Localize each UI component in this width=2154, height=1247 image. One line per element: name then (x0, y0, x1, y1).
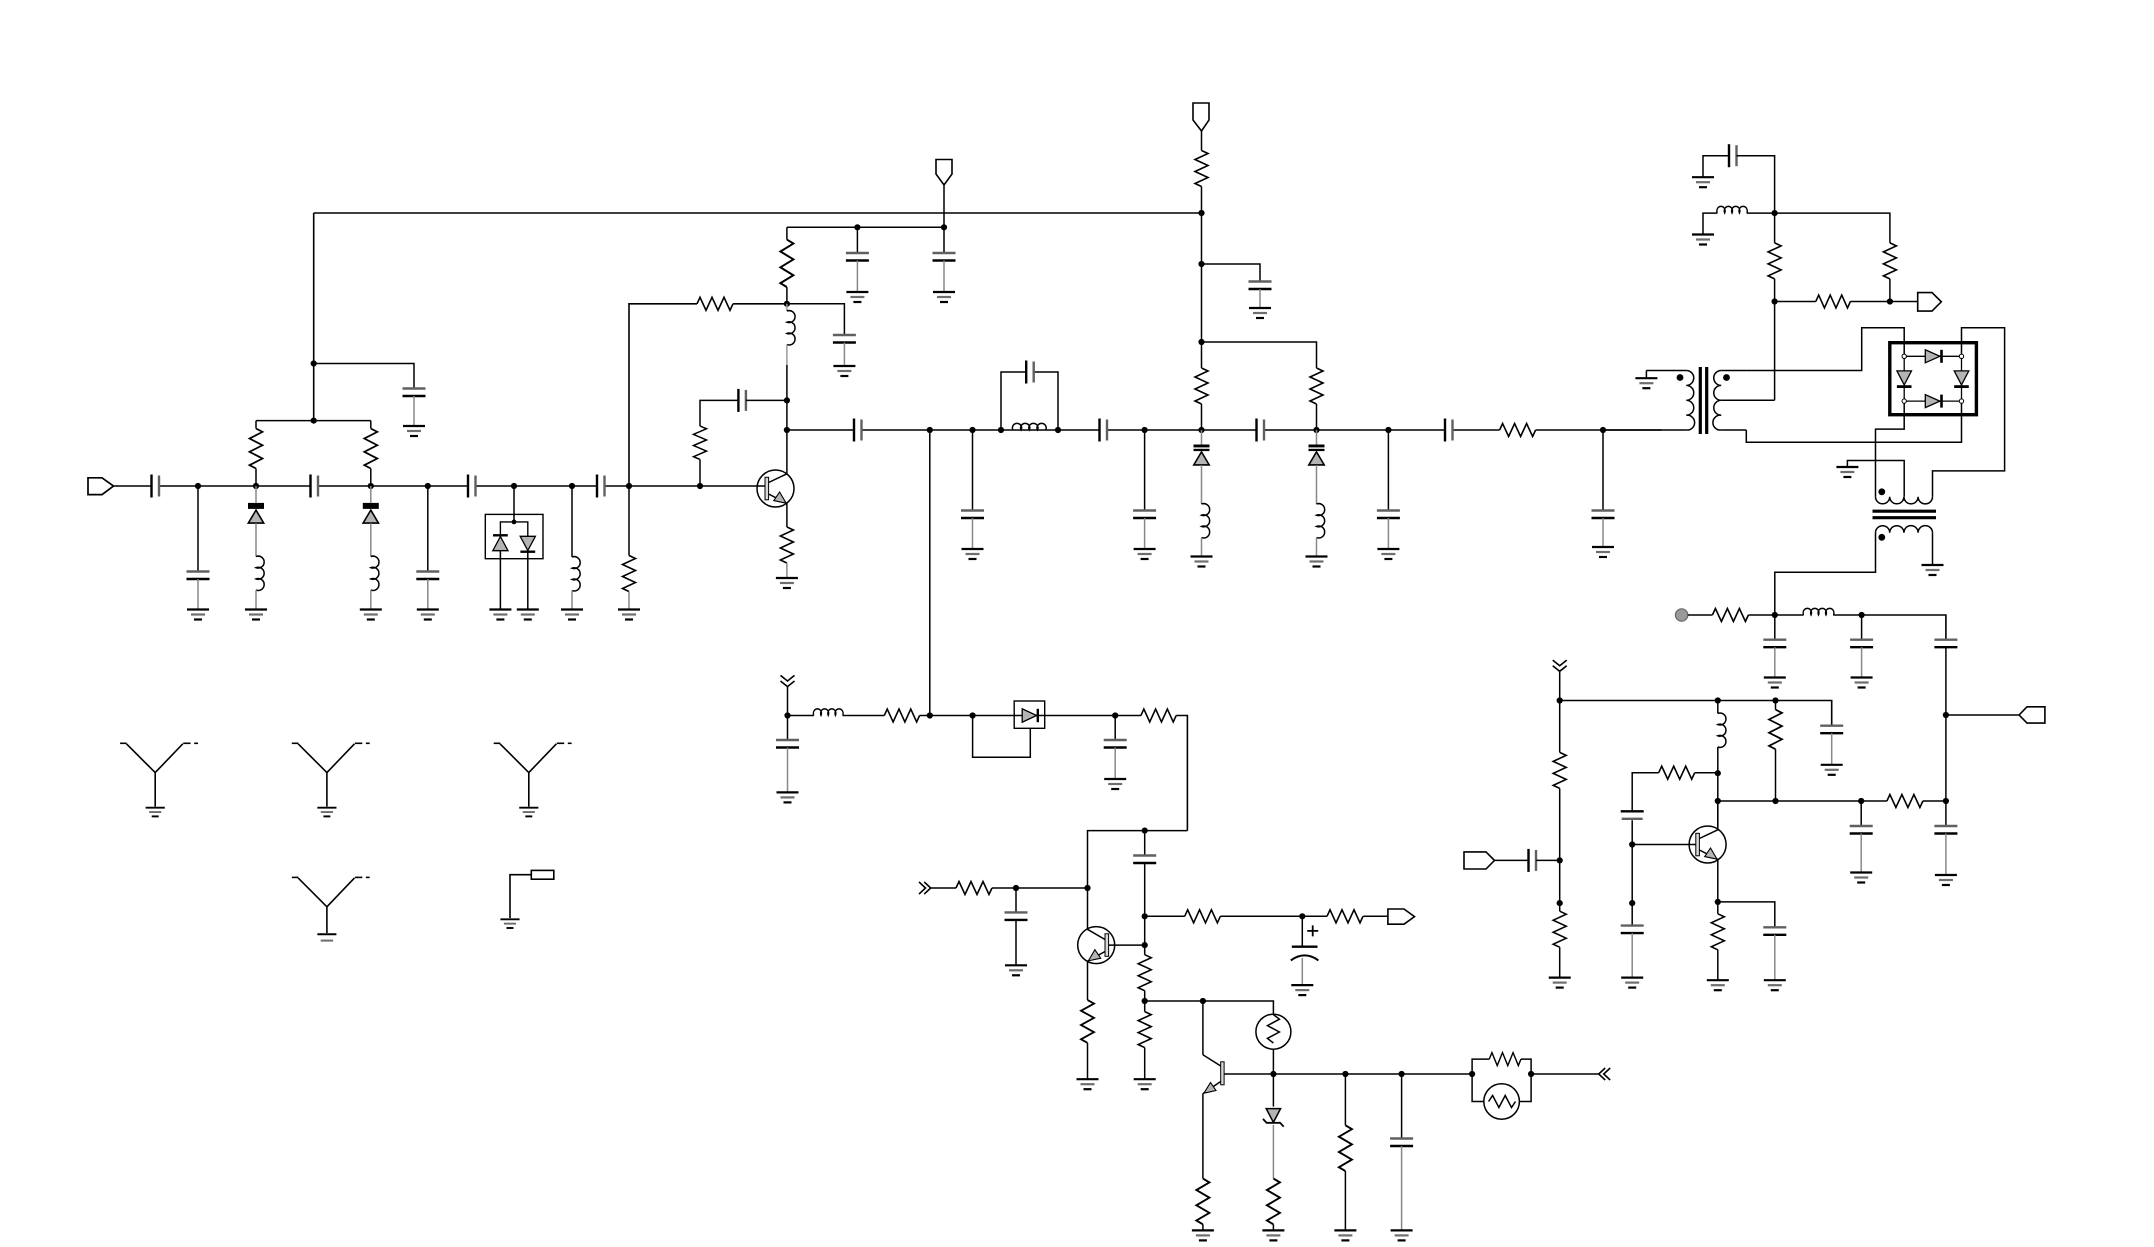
wire: IF line (1688, 615, 1946, 640)
wire (1945, 647, 1947, 801)
inductor L8 (813, 709, 843, 716)
wire (699, 460, 701, 487)
ground (1192, 1230, 1214, 1240)
capacitor C29 (1763, 640, 1786, 648)
capacitor C24 (1133, 856, 1156, 864)
node D10n (1385, 427, 1391, 433)
diode D12 (bridge bottom) (1925, 395, 1941, 408)
node M1n (1557, 697, 1563, 703)
plus sign (1307, 925, 1318, 936)
wire: Q3 output line (1718, 800, 1946, 802)
wire (1775, 701, 1777, 710)
wire (1144, 518, 1146, 549)
ground (519, 808, 538, 817)
wire (1774, 935, 1776, 980)
wire (786, 345, 788, 365)
wire (1272, 1049, 1274, 1074)
resistor R31 (1887, 795, 1923, 808)
ground (1592, 547, 1614, 557)
node M2n (1557, 857, 1563, 863)
wire (972, 430, 974, 511)
node K3 (1887, 298, 1893, 304)
node M10n (1629, 841, 1635, 847)
inductor L9 (1717, 206, 1747, 213)
ground (1692, 235, 1714, 245)
capacitor C15 (1100, 419, 1108, 442)
capacitor C14 (1026, 361, 1034, 384)
node B4 (941, 224, 947, 230)
wire (1301, 958, 1303, 985)
node M8n (1772, 798, 1778, 804)
wire (943, 185, 945, 227)
node F2 (927, 712, 933, 718)
node H2 (1270, 1071, 1276, 1077)
capacitor C6 (597, 475, 605, 498)
wire (1945, 801, 1947, 826)
wire: input line segments (113, 485, 765, 487)
node M7n (1772, 697, 1778, 703)
wire (787, 748, 789, 793)
wire (1316, 430, 1318, 504)
node A8 (626, 483, 632, 489)
ground (517, 610, 539, 620)
node L3n (1943, 712, 1949, 718)
wire: Q2 collector line (1088, 831, 1188, 930)
node D11n (1600, 427, 1606, 433)
capacitor C13 (961, 511, 984, 519)
ground (317, 934, 336, 940)
wire (787, 287, 845, 335)
connector J6 (2019, 707, 2045, 723)
wire: bridge TR to T2 (1933, 328, 2005, 497)
diode D3 (493, 535, 508, 550)
wire (1301, 916, 1303, 946)
wire (1495, 859, 1529, 861)
wire (1015, 888, 1017, 912)
ground (1635, 378, 1657, 388)
ground (1291, 985, 1313, 995)
resistor R26 (1816, 295, 1851, 308)
chevron marker M3 (919, 882, 931, 894)
wire (1861, 615, 1863, 640)
wire (1747, 213, 1890, 243)
resistor R28 (1553, 752, 1566, 788)
node B7 (697, 483, 703, 489)
ground (561, 610, 583, 620)
ground (618, 610, 640, 620)
wire (786, 430, 788, 474)
node M12n (1715, 899, 1721, 905)
wire (1202, 1001, 1204, 1055)
node B6 (784, 397, 790, 403)
bridge terminal (1959, 354, 1963, 358)
diode pair box U1 (485, 514, 543, 558)
resistor R6 (694, 426, 707, 459)
resistor R11 (1195, 151, 1208, 187)
wire (427, 486, 429, 572)
varactor D1 (248, 503, 264, 523)
resistor R13 (1141, 709, 1176, 722)
bridge terminal (1902, 399, 1906, 403)
node H3 (1342, 1071, 1348, 1077)
wire: tank loop (1001, 372, 1058, 430)
node E1 (1198, 210, 1204, 216)
wire (1774, 615, 1776, 640)
ground (1621, 978, 1643, 988)
wire: T1 secondary top to bridge (1747, 328, 1905, 371)
ground (776, 578, 798, 588)
wire (500, 551, 527, 610)
wire (1559, 671, 1561, 752)
capacitor C8 (846, 253, 869, 261)
capacitor C7 (403, 389, 426, 397)
resistor R5 (780, 240, 793, 288)
node Q1C (784, 427, 790, 433)
wire (1861, 647, 1863, 677)
resistor R20 (1196, 1179, 1209, 1225)
node G1 (1142, 828, 1148, 834)
wire: detector line (788, 716, 1188, 831)
ground (1077, 1079, 1099, 1089)
antenna symbol Y1 (120, 743, 198, 806)
wire (1401, 1074, 1403, 1139)
inductor L5 (1012, 423, 1046, 430)
capacitor C1 (152, 475, 160, 498)
wire (1144, 991, 1146, 1012)
resistor R30 (1769, 710, 1782, 750)
wire (255, 421, 257, 486)
wire (1945, 834, 1947, 876)
wire (786, 563, 788, 578)
wire (1632, 845, 1696, 926)
ground (1692, 177, 1714, 187)
capacitor C22 (776, 740, 799, 748)
resistor R29 (1553, 911, 1566, 947)
wire (1087, 1043, 1089, 1079)
wire (786, 503, 788, 527)
ground (846, 292, 868, 302)
wire: AGC output line (1224, 1073, 1599, 1075)
wire: feedback branch (1632, 773, 1718, 845)
resistor R16 (956, 882, 992, 895)
ground (403, 426, 425, 436)
capacitor C19 (1445, 419, 1453, 442)
wire (1344, 1074, 1346, 1125)
ground (417, 610, 439, 620)
wire (1703, 213, 1717, 234)
resistor R18 (1138, 955, 1151, 991)
wire (1559, 903, 1561, 911)
wire (1718, 902, 1775, 927)
capacitor C26 (1005, 912, 1028, 920)
diode D7 (1014, 709, 1044, 722)
wire (1144, 430, 1146, 511)
stub terminator S1 (510, 870, 554, 918)
resistor R3 (623, 556, 636, 592)
wire (427, 579, 429, 610)
resistor R2 (364, 429, 377, 469)
varactor D6 (1309, 445, 1325, 465)
wire (787, 687, 789, 716)
node M11n (1629, 900, 1635, 906)
node M6n (1715, 798, 1721, 804)
zener diode D8 (1263, 1109, 1284, 1127)
connector J4 (1388, 909, 1415, 924)
ground (245, 610, 267, 620)
wire (1774, 647, 1776, 677)
wire (786, 304, 788, 311)
ground (1249, 308, 1271, 318)
ground (933, 292, 955, 302)
wire (1559, 788, 1561, 903)
transistor Q4 (1203, 1055, 1224, 1094)
resistor R19 (1138, 1012, 1151, 1048)
wire (370, 486, 372, 557)
capacitor C9 (933, 253, 956, 261)
capacitor C20 (1592, 511, 1615, 519)
ground (146, 808, 165, 817)
chevron marker M4 (1599, 1068, 1611, 1080)
capacitor C12 (854, 419, 862, 442)
resistor R14 (1185, 910, 1221, 923)
varactor D2 (363, 503, 379, 523)
ground (1821, 765, 1843, 775)
diode bridge U3 (1890, 343, 1977, 415)
resistor R33 (1711, 914, 1724, 950)
wire (413, 396, 415, 426)
diode D4 (520, 536, 535, 551)
ground (777, 792, 799, 802)
wire (1201, 187, 1203, 265)
wire: mixer RF line (787, 429, 1662, 431)
wire (1144, 1048, 1146, 1080)
node A3 (368, 483, 374, 489)
node F1 (784, 712, 790, 718)
resistor R24 (1768, 243, 1781, 279)
wire (1015, 920, 1017, 965)
resistor R10 (1500, 424, 1536, 437)
wire (1602, 518, 1604, 547)
wire (1775, 749, 1777, 801)
wire: T2 bottom right (1932, 533, 1934, 565)
wire (1259, 289, 1261, 308)
wire (1201, 342, 1203, 430)
node E2 (1198, 261, 1204, 267)
wire (255, 590, 257, 609)
capacitor C23 (1104, 740, 1127, 748)
wire (370, 421, 372, 486)
wire (197, 579, 199, 610)
wire (786, 365, 788, 400)
wire (314, 364, 414, 389)
wire (943, 261, 945, 293)
node D6n (1142, 427, 1148, 433)
wire (1717, 950, 1719, 980)
node L2n (1859, 612, 1865, 618)
resistor R12 (884, 709, 919, 722)
ground (1391, 1230, 1413, 1240)
node D7n (1198, 427, 1204, 433)
inductor L4 (787, 311, 795, 345)
chevron marker M1 (781, 675, 795, 686)
node A5 (511, 483, 517, 489)
capacitor C17 (1257, 419, 1265, 442)
node A6 (512, 520, 517, 525)
node C13n (927, 427, 933, 433)
ground (360, 610, 382, 620)
wire (1559, 947, 1561, 977)
wire (1316, 404, 1318, 430)
node D8n (1198, 339, 1204, 345)
wire (1717, 747, 1719, 827)
ground (1922, 565, 1944, 575)
resistor R9 (1310, 368, 1323, 404)
node D5n (969, 427, 975, 433)
wire (1717, 801, 1719, 902)
capacitor C38 (1763, 927, 1786, 935)
node H4 (1399, 1071, 1405, 1077)
capacitor C33 (1820, 726, 1843, 734)
wire (256, 420, 371, 422)
thermistor RT2 (1484, 1084, 1520, 1120)
wire (1860, 801, 1862, 826)
wire (856, 261, 858, 293)
bridge terminal (1959, 399, 1963, 403)
antenna symbol Y2 (292, 743, 370, 806)
wire: R/thermistor loop top (1472, 1059, 1531, 1074)
wire (1737, 156, 1775, 213)
wire (1202, 264, 1261, 342)
node T2n (1055, 427, 1061, 433)
node G3 (1299, 913, 1305, 919)
ground (1377, 549, 1399, 559)
ground (1005, 965, 1027, 975)
ground (317, 808, 336, 817)
capacitor C37 (1621, 926, 1644, 934)
ground (1134, 1079, 1156, 1089)
wire (1602, 430, 1604, 511)
diode D9 (bridge top) (1925, 350, 1941, 363)
resistor R15 (1327, 910, 1363, 923)
wire (1201, 430, 1203, 504)
node G6 (1142, 942, 1148, 948)
wire (1536, 859, 1560, 861)
wire (1387, 518, 1389, 549)
wire (500, 522, 527, 536)
wire (1631, 933, 1633, 978)
wire (1401, 1146, 1403, 1230)
connector J1 (RF input) (88, 478, 114, 495)
terminal P1 (1675, 609, 1687, 621)
wire: R/thermistor loop bottom (1472, 1074, 1531, 1102)
inductor L7 (1317, 504, 1325, 538)
ground (500, 919, 519, 928)
capacitor C27 (1390, 1139, 1413, 1147)
diode D11 (bridge right) (1954, 371, 1969, 387)
node M9n (1858, 798, 1864, 804)
wire (929, 430, 931, 716)
resistor R23 (1489, 1053, 1521, 1066)
varactor D5 (1194, 445, 1210, 465)
resistor R8 (1195, 368, 1208, 404)
wire (700, 400, 787, 430)
inductor L3 (572, 557, 580, 591)
capacitor C18 (1377, 511, 1400, 519)
wire: bridge BL to T2 (1876, 403, 1905, 496)
chevron marker M2 (1553, 660, 1567, 671)
ground (1306, 557, 1328, 567)
wire: bias line (787, 227, 944, 239)
ground (1334, 1230, 1356, 1240)
wire (1202, 342, 1317, 368)
wire: T2 bottom left (1775, 533, 1876, 615)
resistor R21 (1267, 1179, 1280, 1225)
node B2 (311, 418, 317, 424)
resistor R4 (697, 297, 733, 310)
bridge terminal (1902, 354, 1906, 358)
node L4n (1943, 798, 1949, 804)
resistor R22 (1339, 1125, 1352, 1171)
ground (1134, 549, 1156, 559)
capacitor C36 (1621, 811, 1644, 819)
resistor R7 (780, 527, 793, 563)
ground (1850, 873, 1872, 883)
capacitor C5 (468, 475, 476, 498)
wire (1775, 301, 1918, 303)
wire (1201, 131, 1203, 151)
node F4 (1112, 712, 1118, 718)
ground (489, 610, 511, 620)
wire (370, 590, 372, 609)
node T1n (998, 427, 1004, 433)
antenna symbol Y4 (292, 877, 370, 933)
node B3 (854, 224, 860, 230)
wire: diode bypass loop (973, 716, 1031, 758)
diode box U2 (1014, 701, 1044, 728)
ground (962, 549, 984, 559)
capacitor C25 (polarized) (1291, 947, 1319, 961)
wire (1144, 863, 1146, 945)
capacitor C34 (1529, 849, 1537, 872)
wire (972, 518, 974, 549)
diode D10 (bridge left) (1897, 371, 1912, 387)
node M5n (1715, 770, 1721, 776)
capacitor C3 (311, 475, 319, 498)
node B1 (311, 360, 317, 366)
transistor Q1 (757, 470, 794, 507)
wire (856, 227, 858, 253)
resistor R1 (250, 429, 263, 469)
connector J3 (tuning supply) (1193, 103, 1209, 131)
wire (1831, 733, 1833, 765)
resistor R27 (1712, 609, 1748, 622)
antenna symbol Y3 (494, 743, 572, 806)
connector J5 (LO) (1918, 293, 1942, 312)
transformer T1 (1603, 367, 1775, 434)
wire (1775, 279, 1890, 400)
ground (1764, 678, 1786, 688)
wire (1145, 915, 1388, 917)
wire (1272, 1074, 1274, 1107)
wire (1387, 430, 1389, 511)
ground (833, 366, 855, 376)
ground (1262, 1230, 1284, 1240)
capacitor C2 (187, 572, 210, 580)
wire (628, 486, 630, 556)
wire (1272, 1224, 1274, 1230)
transformer T2 (1873, 488, 1937, 540)
resistor R17 (1081, 1000, 1094, 1043)
